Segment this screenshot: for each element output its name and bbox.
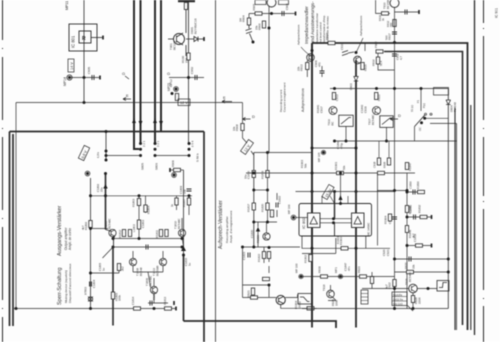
node MP104 top	[173, 174, 176, 177]
svg-text:4k7: 4k7	[81, 225, 85, 230]
svg-text:R919: R919	[318, 266, 322, 273]
resistor R911 on rail	[393, 20, 396, 27]
head symbol box 4	[298, 294, 312, 305]
wire T1809 base	[133, 272, 163, 303]
resistor R905 inline	[255, 12, 262, 15]
svg-text:Aufsprechstrom: Aufsprechstrom	[297, 24, 301, 45]
resistor R928	[411, 296, 414, 303]
svg-text:G: G	[122, 71, 125, 76]
main rail (impedance section) vertical	[311, 43, 313, 321]
svg-text:R1813: R1813	[163, 296, 167, 305]
svg-text:5C4: 5C4	[379, 60, 383, 66]
diode D903 on rail	[354, 77, 358, 82]
svg-text:470: 470	[318, 62, 322, 67]
svg-text:C913: C913	[335, 94, 339, 101]
cap C1820 arrow	[256, 227, 260, 232]
svg-text:Ampli. de sortie: Ampli. de sortie	[68, 228, 72, 250]
rail x=269 top	[268, 7, 270, 153]
resistor R921b inline	[251, 296, 258, 299]
svg-text:C1831: C1831	[409, 204, 413, 213]
resistor R1809	[175, 198, 178, 205]
resistor R1848	[405, 206, 408, 213]
wire y=148	[312, 147, 356, 149]
wire y=192 caps	[407, 191, 424, 193]
wire y=191.5 top bus	[296, 191, 395, 193]
svg-text:R1811: R1811	[155, 230, 159, 238]
polarity arrow C1806	[103, 184, 107, 189]
resistor R915	[361, 63, 364, 70]
svg-text:C917: C917	[320, 106, 324, 113]
terminal D901	[203, 37, 205, 41]
resistor R914 inline on box edge	[328, 41, 335, 44]
transistor T911	[307, 54, 315, 62]
section label Aufsprech-Verstaerker	[218, 200, 233, 249]
svg-text:MP12: MP12	[169, 79, 173, 87]
wire G bus	[169, 77, 204, 79]
svg-text:22u: 22u	[100, 187, 104, 192]
resistor R1804	[145, 196, 147, 213]
svg-text:C1820: C1820	[250, 229, 254, 238]
svg-text:R926: R926	[383, 161, 387, 168]
rail x=253.8	[253, 153, 255, 248]
diode D904	[446, 89, 451, 309]
label 14V box	[68, 59, 74, 72]
page border right dash-dot	[483, 0, 485, 342]
svg-text:R1902: R1902	[304, 254, 308, 263]
components C918 R926	[379, 141, 389, 158]
resistor inline y310	[307, 307, 314, 310]
head symbol box 2	[380, 116, 393, 128]
svg-text:S805: S805	[141, 163, 145, 170]
svg-text:S1 (c): S1 (c)	[410, 105, 414, 112]
svg-text:1u: 1u	[188, 262, 192, 266]
rail x=394.5 long	[394, 8, 396, 309]
svg-text:C1822: C1822	[278, 195, 282, 204]
svg-text:R1820: R1820	[261, 203, 265, 212]
svg-text:560: 560	[385, 35, 389, 40]
bus terminals	[175, 307, 177, 311]
resistor R100 150	[188, 0, 190, 144]
top terminal bar radio	[178, 0, 195, 2]
IC801 pin terminal	[102, 36, 104, 40]
svg-text:MP 100: MP 100	[295, 263, 299, 273]
svg-text:14 V: 14 V	[70, 62, 74, 70]
node MP14	[67, 75, 72, 80]
resistor R1822	[262, 252, 265, 259]
node MP12	[175, 88, 178, 91]
resistor inline 2	[360, 275, 367, 278]
wire y=259 bottom right	[395, 258, 449, 260]
svg-text:C1830: C1830	[409, 181, 413, 189]
capacitor C905	[282, 11, 284, 16]
svg-text:R1803: R1803	[132, 198, 136, 207]
svg-text:6,8 k: 6,8 k	[96, 151, 100, 158]
wire T901 collector	[185, 9, 187, 56]
rail x=113 thick lower	[112, 247, 114, 326]
resistor R902	[175, 94, 178, 101]
svg-text:Dispositif d'accord silencieux: Dispositif d'accord silencieux	[68, 263, 72, 303]
svg-text:OC: OC	[418, 127, 422, 131]
resistor R1811	[159, 230, 162, 237]
svg-text:X7803: X7803	[84, 286, 88, 295]
svg-text:BC108: BC108	[173, 40, 177, 50]
wire y=247 mid	[243, 246, 301, 248]
op-amp U1b square	[352, 213, 365, 228]
resistor R1812	[122, 230, 125, 237]
svg-text:P(c): P(c)	[422, 103, 426, 108]
svg-text:D903: D903	[349, 83, 353, 90]
transistor T913	[329, 107, 337, 115]
transistor T912	[354, 56, 362, 64]
svg-text:R909: R909	[171, 160, 175, 167]
wires head boxes to bus	[346, 126, 415, 141]
transistor T1813	[159, 258, 166, 265]
wire y=253 lower	[302, 253, 336, 255]
resistor R919 inline	[321, 275, 328, 278]
resistor R1815	[252, 171, 255, 178]
svg-text:P902: P902	[374, 41, 378, 48]
svg-text:S 89 b: S 89 b	[196, 153, 200, 162]
resistor R1807 on rail 189	[188, 196, 190, 215]
svg-text:56k: 56k	[342, 165, 346, 170]
svg-text:L1803: L1803	[132, 224, 136, 232]
svg-text:C1813: C1813	[152, 291, 156, 300]
svg-text:R: R	[82, 36, 86, 42]
terminal right of C801	[99, 76, 101, 80]
svg-text:33p: 33p	[183, 189, 187, 194]
svg-text:22k: 22k	[297, 66, 301, 71]
svg-text:100k: 100k	[118, 294, 122, 301]
svg-text:S806: S806	[155, 163, 159, 170]
svg-text:BC548C: BC548C	[408, 271, 412, 282]
pins x=106	[105, 150, 108, 153]
svg-text:R922: R922	[377, 94, 381, 101]
svg-text:R1901: R1901	[334, 161, 338, 170]
resistor R920	[263, 277, 270, 280]
wire y=190	[254, 189, 268, 191]
wire x=249	[248, 14, 250, 19]
thick rail x=183	[183, 255, 185, 321]
wire y=88.5	[330, 88, 448, 90]
label box C903	[279, 0, 289, 5]
svg-text:D: D	[252, 114, 255, 119]
transistor T918	[327, 290, 335, 298]
capacitor C910 diagonal	[342, 51, 354, 56]
resistor P902 inline on inner box	[376, 50, 383, 53]
wire T903 top right	[395, 11, 420, 13]
wire MP106 to op1	[296, 217, 308, 219]
label 12V tilted	[241, 140, 254, 155]
svg-text:1u: 1u	[102, 267, 106, 271]
svg-text:560: 560	[389, 22, 393, 27]
wire y=121	[425, 117, 449, 119]
capacitor C914	[392, 217, 397, 219]
svg-text:BZY85/C18: BZY85/C18	[194, 18, 198, 34]
svg-text:MP11: MP11	[65, 1, 69, 10]
svg-text:R1903: R1903	[336, 236, 340, 244]
svg-text:S(ch)Fe: S(ch)Fe	[393, 293, 403, 297]
small text block mid	[300, 159, 308, 168]
resistor R901 top	[184, 3, 187, 10]
page border left dash-dot	[2, 0, 4, 342]
svg-text:47n: 47n	[347, 266, 351, 271]
wire T1805 base	[91, 228, 109, 230]
diode D901 BZY85/C18	[186, 38, 204, 40]
resistor R1817	[252, 203, 255, 210]
resistor R1803 column	[138, 196, 140, 240]
node MP100	[300, 275, 303, 278]
svg-text:R923: R923	[357, 266, 361, 273]
capacitor C907 on rail	[392, 32, 397, 34]
right side long cables	[455, 0, 475, 335]
transistor T1810 BC548C	[178, 229, 185, 236]
svg-text:C919: C919	[364, 106, 368, 113]
svg-text:3 2 1: 3 2 1	[142, 140, 146, 147]
bottom thick bus	[184, 321, 337, 328]
svg-text:Impedanzwandler: Impedanzwandler	[304, 6, 310, 44]
svg-text:MP1: MP1	[334, 267, 338, 273]
thick rail x=333	[334, 192, 336, 219]
pins x=189	[188, 142, 191, 145]
long bus y=308 right part	[302, 308, 448, 310]
rail x=334.5 lower	[334, 223, 336, 236]
wire top-left horizontal	[16, 102, 243, 104]
wire y=123.4	[430, 122, 457, 124]
wire T902 base row	[249, 13, 296, 15]
svg-text:BC558B: BC558B	[156, 265, 160, 276]
resistor R908	[241, 124, 244, 131]
svg-text:BC548C: BC548C	[108, 218, 112, 229]
resistor R1905 inline	[378, 171, 385, 174]
svg-text:Ausgangs-Verstärker: Ausgangs-Verstärker	[57, 205, 63, 256]
svg-text:R1817: R1817	[247, 203, 251, 212]
head symbol box 1	[339, 115, 353, 126]
wire T901 base	[168, 38, 174, 40]
wire T914 emitter	[243, 295, 317, 309]
svg-text:BC548C: BC548C	[177, 218, 181, 229]
svg-text:C905: C905	[285, 3, 289, 10]
rail x=365.8 from box bottom	[365, 236, 367, 248]
wire T903 base L	[376, 0, 390, 13]
svg-text:MP 105: MP 105	[317, 152, 321, 162]
svg-text:4,7: 4,7	[399, 56, 403, 60]
svg-text:6 5 4: 6 5 4	[191, 140, 195, 147]
wires T1808/T1813 collectors up	[133, 251, 163, 272]
wire top feed node	[83, 76, 86, 79]
resistor R1903 inline	[341, 247, 348, 250]
cap C1810	[146, 245, 148, 250]
transistor T915	[409, 284, 418, 293]
svg-text:Sperr-Schaltung: Sperr-Schaltung	[57, 267, 63, 305]
IC801 pin wire right	[91, 37, 103, 39]
transistor T1811	[263, 233, 270, 240]
svg-text:R921: R921	[247, 290, 251, 297]
IC 801 outer box	[69, 24, 97, 51]
svg-text:3 2 1: 3 2 1	[156, 140, 160, 147]
thick rail op1 vertical	[311, 43, 313, 321]
wire cable right B	[474, 0, 476, 335]
capacitor C1809 on rail	[187, 189, 192, 191]
resistor R1901 inline	[337, 171, 344, 174]
connector table small	[361, 290, 368, 304]
label 15V tilted	[322, 184, 334, 199]
resistor R1904b	[388, 214, 391, 221]
resistor R1806 on rail 90	[89, 221, 92, 228]
resistor R1813	[128, 230, 131, 237]
transistor T903	[390, 0, 399, 8]
wire MP14 to C801	[70, 77, 101, 79]
node MP106	[292, 216, 295, 219]
svg-text:TV4048: TV4048	[453, 102, 457, 112]
resistor R1820	[266, 203, 269, 210]
resistor R909 on wire	[170, 169, 184, 171]
label 12V box	[178, 99, 190, 106]
bottom bus components	[89, 307, 92, 310]
svg-text:100k: 100k	[335, 299, 339, 306]
node MP105	[322, 151, 325, 154]
capacitor C801	[92, 75, 94, 80]
transistor T1808	[129, 258, 136, 265]
label 4,8V tilted	[78, 145, 89, 160]
resistor R1847	[405, 163, 408, 170]
resistor chain right of 267	[268, 251, 270, 273]
wire x=340.5 with arrow	[340, 173, 342, 204]
svg-text:E: E	[223, 95, 226, 100]
rail x=407	[406, 173, 408, 309]
svg-text:R916: R916	[372, 59, 376, 66]
wire y=173 top	[246, 172, 415, 174]
svg-text:R820: R820	[404, 262, 408, 269]
wire IC801 top feed	[83, 0, 85, 78]
IC 802 outer box	[299, 204, 372, 237]
svg-text:R1904: R1904	[384, 215, 388, 224]
transistor T914	[373, 107, 381, 115]
svg-text:MP 106: MP 106	[287, 204, 291, 214]
resistor R916	[376, 57, 379, 64]
wire x=377.5 vertical	[377, 173, 379, 246]
svg-text:R1812: R1812	[118, 229, 122, 238]
inductor L1803	[137, 220, 140, 229]
wire y=190.5 right	[377, 190, 407, 192]
svg-text:E: E	[126, 93, 129, 98]
resistor R1805b on rail	[111, 292, 114, 299]
svg-text:MP14: MP14	[63, 77, 67, 86]
svg-text:IC 801: IC 801	[71, 35, 76, 48]
svg-text:56k: 56k	[304, 163, 308, 168]
wire cable right A	[454, 108, 456, 330]
head symbol box 3	[437, 281, 449, 292]
arrowheads on cable bundle	[132, 118, 163, 126]
section label Ausgangs-Verstaerker	[57, 205, 72, 256]
svg-text:R1807: R1807	[182, 198, 186, 207]
svg-text:Ampli. d'enregistrement: Ampli. d'enregistrement	[229, 210, 233, 243]
transistor T1805 BC548C	[109, 229, 116, 236]
op-amp U1a square	[308, 213, 321, 228]
svg-text:MC 1458C: MC 1458C	[367, 223, 371, 236]
svg-text:C805: C805	[87, 66, 91, 74]
right big box inner top	[384, 52, 463, 326]
connector S805 pins	[14, 132, 176, 309]
resistor C912b on rail	[393, 280, 396, 287]
node MP dot left rail	[86, 172, 89, 175]
svg-text:C1814: C1814	[131, 296, 135, 305]
table box 3 rows	[392, 292, 407, 306]
resistor R1850	[370, 277, 373, 284]
cap C1804 on rail 90	[90, 282, 92, 287]
svg-text:Courant enregistrement: Courant enregistrement	[283, 82, 287, 112]
svg-text:220R: 220R	[418, 297, 422, 304]
svg-text:10u: 10u	[244, 174, 248, 179]
component box at D904 wire	[434, 88, 449, 96]
wire T915 to head	[362, 288, 437, 290]
cap C1823	[248, 253, 250, 258]
wire y=196	[91, 195, 193, 197]
svg-text:15k: 15k	[255, 25, 259, 30]
wire y=141	[335, 140, 458, 142]
connector pins row (S805/S806)	[139, 142, 142, 145]
svg-text:BC548C: BC548C	[371, 114, 375, 125]
svg-text:10k: 10k	[232, 126, 236, 131]
left big box (Ausgangs-Verstaerker enclosure)	[10, 132, 205, 342]
resistor R904 1M	[247, 18, 250, 25]
svg-text:R1832: R1832	[418, 204, 422, 213]
wire T1805 emitter to bus	[113, 237, 115, 248]
wire y=272	[395, 271, 449, 273]
resistor R921	[251, 288, 254, 295]
wire y=276.5 bottom middle	[301, 276, 395, 278]
svg-text:Aufsprechstrom: Aufsprechstrom	[359, 15, 363, 36]
wires T915 bottom	[408, 293, 414, 312]
wire y=152 bus	[254, 152, 312, 154]
svg-text:S(t) CrO: S(t) CrO	[393, 302, 403, 306]
cap C911	[392, 54, 397, 56]
wire below box y=248	[302, 236, 390, 248]
svg-text:R1819: R1819	[261, 170, 265, 179]
svg-text:2k2: 2k2	[121, 266, 125, 271]
thick rail op2 vertical	[355, 60, 357, 328]
svg-text:R1804: R1804	[147, 205, 151, 214]
svg-text:12 V: 12 V	[180, 101, 188, 105]
long thin separator x=215	[215, 0, 217, 342]
internal bus lines	[320, 219, 352, 223]
svg-text:BC158C: BC158C	[386, 0, 390, 9]
svg-text:Aufsprechstrom: Aufsprechstrom	[301, 88, 305, 112]
wire pin bus	[106, 155, 189, 157]
svg-text:R1822: R1822	[257, 253, 261, 262]
svg-text:C1804: C1804	[92, 279, 96, 288]
transistor T901 BC108	[174, 34, 185, 45]
wire rail x=242.5 upper	[242, 103, 244, 139]
svg-text:C921: C921	[386, 249, 390, 256]
svg-text:D: D	[398, 113, 401, 118]
wire y=217 with caps	[407, 216, 432, 218]
svg-text:C902: C902	[190, 66, 194, 74]
rail x=456	[456, 123, 458, 330]
svg-text:IC 901: IC 901	[495, 8, 499, 18]
svg-text:R1847: R1847	[408, 162, 412, 171]
resistor C1814 on bus	[134, 307, 141, 310]
section text Aufsprechstrom	[279, 82, 305, 112]
wire cable right C	[470, 105, 472, 330]
rail x=105.5 thick	[105, 174, 107, 230]
svg-text:R914: R914	[325, 33, 329, 40]
wire left drop	[15, 103, 17, 309]
label box T902	[255, 0, 266, 5]
symbol X7803	[88, 297, 92, 301]
svg-text:C918: C918	[373, 161, 377, 168]
switch S1	[420, 89, 422, 112]
svg-text:1M: 1M	[239, 17, 243, 22]
